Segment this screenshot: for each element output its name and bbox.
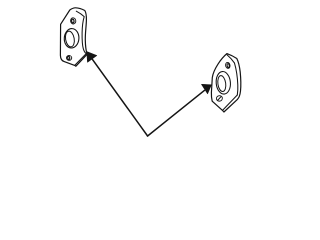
leader line to gasket G2: [148, 90, 205, 136]
arrowhead at gasket G1: [87, 52, 97, 63]
gasket G1 front-face top chamfer and right edge: [76, 11, 86, 53]
leader line to gasket G1: [92, 59, 148, 136]
gasket G2 (right flange) silhouette: [211, 54, 240, 112]
gasket G2 center hole outer: [215, 71, 231, 95]
gasket G2 center hole inner (depth): [217, 75, 227, 92]
gasket G1 front-face bottom-right edge: [75, 54, 87, 66]
gasket G2 front-face bottom-right edge: [223, 95, 238, 110]
gasket G2 front-face top-right edge: [227, 55, 234, 63]
gasket G2 top bolt hole inner: [227, 64, 230, 68]
gasket G1 top bolt hole: [70, 17, 76, 24]
gasket G1 bottom bolt hole inner: [67, 56, 70, 59]
gasket G2 front-face right edge: [235, 63, 238, 95]
gasket G1 top bolt hole inner: [71, 19, 74, 23]
gasket G2 bottom bolt hole: [216, 95, 223, 102]
gasket G1 center hole inner (depth): [64, 30, 75, 47]
gasket G2 top bolt hole: [225, 62, 231, 69]
arrowhead at gasket G2: [202, 84, 212, 94]
gasket G1 center hole outer: [64, 28, 80, 48]
gasket G1 (left flange) silhouette: [60, 8, 87, 66]
gasket G1 bottom bolt hole: [66, 55, 72, 61]
gasket G2 bottom bolt hole depth slash: [218, 97, 221, 100]
